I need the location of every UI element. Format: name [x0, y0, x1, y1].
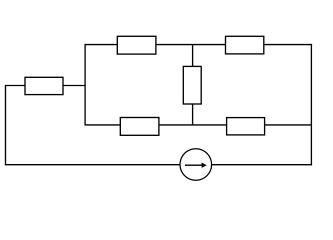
current source I1 arrow head [202, 163, 207, 168]
wire top-right segment (R2 to right rail) [264, 44, 313, 46]
wire left outer vertical [5, 85, 7, 166]
resistor R5 (bottom right) [227, 118, 265, 135]
wire left resistor right lead (to node A) [63, 85, 86, 87]
wire left-inner vertical (node A rail) [84, 44, 86, 126]
resistor R6 (left) [25, 77, 63, 94]
resistor R4 (bottom left) [120, 118, 159, 136]
wire top-inner middle segment (R1 to R2 through node B) [156, 44, 227, 46]
wire mid vertical upper (node B to R3 top) [192, 45, 194, 67]
wire right vertical rail [310, 44, 312, 165]
wire mid vertical lower (R3 bottom to node C) [192, 104, 194, 125]
current source I1 (circle) [180, 149, 212, 181]
wire left resistor left lead [6, 85, 26, 87]
wire bottom-inner right segment (R5 to right rail) [264, 124, 311, 126]
wire bottom-inner middle segment (R4 to R5 through node C) [159, 124, 228, 126]
wire bottom outer left (to current source) [5, 164, 180, 166]
resistor R1 (top left) [117, 36, 156, 54]
current source I1 arrow shaft [185, 164, 203, 166]
wire top-inner left segment (node A to R1) [85, 44, 118, 46]
wire bottom-inner left segment (node A to R4) [85, 124, 121, 126]
resistor R2 (top right) [226, 36, 264, 54]
wire bottom outer right (current source to right rail) [212, 164, 312, 166]
resistor R3 (middle vertical) [183, 66, 201, 104]
